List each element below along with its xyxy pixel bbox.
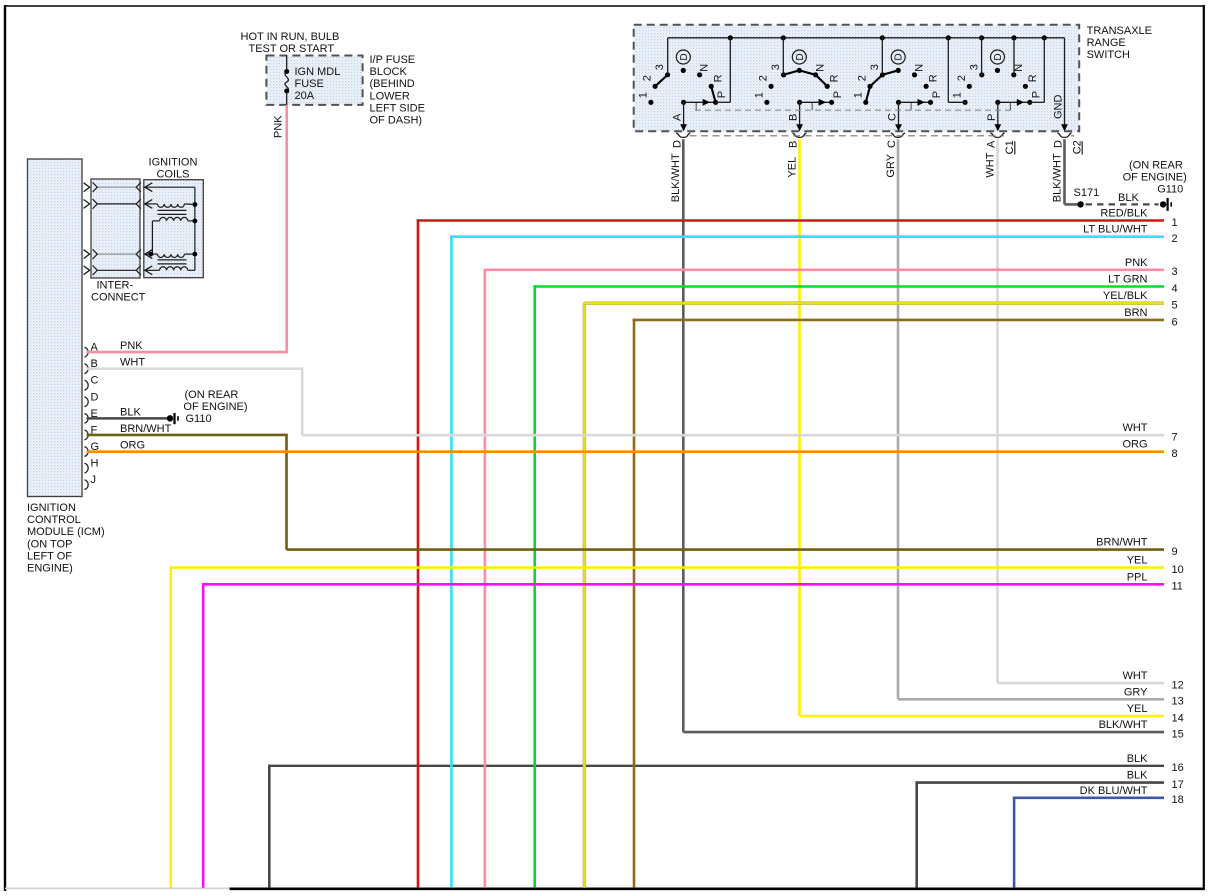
svg-text:1: 1 [852,92,864,98]
svg-text:INTER-: INTER- [97,280,134,292]
svg-text:1: 1 [637,92,649,98]
svg-text:D: D [993,53,1004,60]
svg-text:GRY: GRY [1124,686,1148,698]
svg-text:R: R [829,74,841,82]
svg-text:9: 9 [1172,546,1178,558]
svg-text:BLK/WHT: BLK/WHT [1051,153,1063,202]
svg-text:D: D [1053,140,1065,148]
svg-text:(ON REAR: (ON REAR [185,389,239,401]
svg-text:3: 3 [1172,266,1178,278]
svg-text:YEL/BLK: YEL/BLK [1103,290,1148,302]
svg-text:BRN/WHT: BRN/WHT [1096,537,1148,549]
svg-text:3: 3 [968,64,980,70]
svg-text:IGNITION: IGNITION [149,157,198,169]
svg-text:YEL: YEL [786,157,798,178]
svg-text:C: C [91,375,99,387]
svg-text:LT BLU/WHT: LT BLU/WHT [1083,224,1148,236]
svg-text:S171: S171 [1074,187,1100,199]
svg-text:G110: G110 [1157,184,1183,196]
svg-text:BRN: BRN [1124,307,1147,319]
svg-text:PNK: PNK [120,340,143,352]
svg-text:D: D [894,53,905,60]
svg-text:N: N [914,64,926,72]
svg-text:TEST OR START: TEST OR START [249,43,335,55]
svg-text:D: D [91,391,99,403]
svg-text:GRY: GRY [885,153,897,177]
svg-text:YEL: YEL [1127,555,1148,567]
svg-text:12: 12 [1172,680,1184,692]
svg-text:BLK: BLK [120,406,141,418]
svg-text:14: 14 [1172,712,1184,724]
svg-text:18: 18 [1172,794,1184,806]
svg-text:ENGINE): ENGINE) [27,563,73,575]
svg-text:OF DASH): OF DASH) [370,115,423,127]
svg-text:COILS: COILS [156,169,189,181]
svg-text:LEFT SIDE: LEFT SIDE [370,102,425,114]
svg-text:B: B [788,141,800,148]
svg-text:7: 7 [1172,432,1178,444]
svg-text:BLK/WHT: BLK/WHT [1099,719,1148,731]
svg-text:2: 2 [758,75,770,81]
svg-text:N: N [815,64,827,72]
svg-text:GND: GND [1053,95,1065,120]
svg-text:PPL: PPL [1127,571,1148,583]
svg-text:FUSE: FUSE [295,78,324,90]
svg-text:WHT: WHT [1122,670,1147,682]
svg-text:BLK: BLK [1127,753,1148,765]
svg-text:PNK: PNK [273,115,285,138]
svg-text:B: B [788,114,800,121]
svg-text:(ON REAR: (ON REAR [1129,160,1183,172]
svg-text:R: R [713,74,725,82]
svg-text:IGNITION: IGNITION [27,502,76,514]
svg-text:3: 3 [770,64,782,70]
svg-text:WHT: WHT [984,152,996,177]
svg-text:MODULE (ICM): MODULE (ICM) [27,526,105,538]
svg-text:OF ENGINE): OF ENGINE) [183,401,247,413]
svg-text:D: D [672,140,684,148]
svg-text:A: A [672,113,684,121]
svg-text:3: 3 [869,64,881,70]
svg-text:1: 1 [952,92,964,98]
svg-text:CONTROL: CONTROL [27,514,81,526]
svg-text:17: 17 [1172,779,1184,791]
svg-text:16: 16 [1172,762,1184,774]
svg-text:IGN MDL: IGN MDL [295,66,341,78]
svg-text:RANGE: RANGE [1087,37,1126,49]
svg-text:YEL: YEL [1127,703,1148,715]
svg-text:2: 2 [956,75,968,81]
svg-text:BLOCK: BLOCK [370,66,408,78]
svg-text:1: 1 [1172,217,1178,229]
svg-text:(BEHIND: (BEHIND [370,78,415,90]
svg-text:P: P [1030,91,1042,98]
svg-text:SWITCH: SWITCH [1087,49,1130,61]
svg-text:BRN/WHT: BRN/WHT [120,423,172,435]
svg-text:2: 2 [857,75,869,81]
svg-text:DK BLU/WHT: DK BLU/WHT [1080,785,1148,797]
svg-text:LOWER: LOWER [370,90,410,102]
svg-text:D: D [795,53,806,60]
svg-text:WHT: WHT [120,357,145,369]
svg-text:P: P [986,114,998,121]
svg-text:RED/BLK: RED/BLK [1100,208,1148,220]
svg-text:WHT: WHT [1122,422,1147,434]
svg-text:R: R [928,74,940,82]
svg-text:5: 5 [1172,300,1178,312]
svg-text:P: P [931,91,943,98]
svg-text:10: 10 [1172,564,1184,576]
svg-text:TRANSAXLE: TRANSAXLE [1087,25,1152,37]
svg-text:ORG: ORG [120,440,145,452]
svg-text:BLK: BLK [1118,192,1139,204]
svg-text:BLK/WHT: BLK/WHT [670,153,682,202]
svg-text:PNK: PNK [1125,257,1148,269]
svg-text:8: 8 [1172,448,1178,460]
svg-text:2: 2 [642,75,654,81]
svg-text:P: P [832,91,844,98]
svg-text:H: H [91,458,99,470]
svg-text:P: P [716,91,728,98]
svg-text:D: D [679,53,690,60]
svg-text:R: R [1027,74,1039,82]
svg-text:OF ENGINE): OF ENGINE) [1123,172,1187,184]
svg-text:11: 11 [1172,581,1183,593]
svg-text:3: 3 [654,64,666,70]
svg-text:G110: G110 [186,413,212,425]
svg-text:(ON TOP: (ON TOP [27,538,72,550]
svg-text:I/P FUSE: I/P FUSE [370,54,416,66]
svg-text:2: 2 [1172,233,1178,245]
svg-text:ORG: ORG [1122,439,1147,451]
svg-text:1: 1 [753,92,765,98]
svg-text:20A: 20A [295,90,315,102]
svg-text:C: C [887,113,899,121]
svg-text:LT GRN: LT GRN [1108,274,1147,286]
svg-text:6: 6 [1172,316,1178,328]
svg-text:BLK: BLK [1127,770,1148,782]
svg-text:CONNECT: CONNECT [91,292,146,304]
svg-text:LEFT OF: LEFT OF [27,550,72,562]
svg-text:J: J [91,474,97,486]
svg-text:13: 13 [1172,696,1184,708]
svg-text:A: A [986,140,998,148]
svg-text:C: C [886,140,898,148]
svg-text:HOT IN RUN, BULB: HOT IN RUN, BULB [241,31,340,43]
svg-text:4: 4 [1172,283,1178,295]
svg-text:N: N [699,64,711,72]
svg-text:15: 15 [1172,729,1184,741]
